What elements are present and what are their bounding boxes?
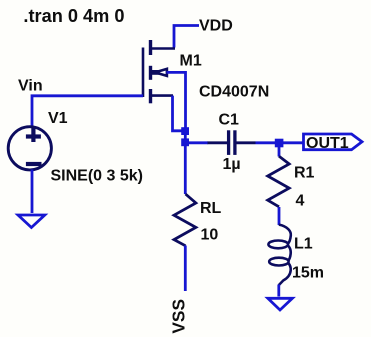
wire bulk down to node [167, 72, 186, 128]
ground (left) [18, 215, 45, 228]
resistor RL [174, 194, 196, 246]
wire node down to RL [184, 131, 187, 194]
svg-text:C1: C1 [219, 112, 240, 129]
plus sign [26, 134, 41, 138]
minus sign [26, 162, 42, 166]
wire C1 to port [256, 141, 305, 144]
gate line [142, 48, 145, 98]
junction node source/bulk [181, 127, 189, 135]
drain stub [151, 47, 176, 50]
svg-text:15m: 15m [292, 264, 324, 281]
svg-text:OUT1: OUT1 [306, 135, 349, 152]
C1 left lead [208, 141, 228, 144]
svg-text:.tran 0 4m 0: .tran 0 4m 0 [23, 6, 124, 26]
svg-text:R1: R1 [294, 165, 315, 182]
channel bar source [149, 89, 152, 103]
svg-text:V1: V1 [48, 110, 68, 127]
junction node R1 top [275, 139, 284, 148]
source stub [151, 94, 174, 97]
bulk arrow [151, 70, 159, 75]
wire L1 to ground [277, 285, 280, 297]
wire source down to node [173, 96, 184, 131]
wire R1 to L1 [278, 207, 281, 225]
resistor R1 [268, 156, 290, 207]
wire node to C1 left [185, 141, 208, 144]
svg-text:10: 10 [201, 226, 219, 243]
inductor L1 [268, 225, 290, 285]
wire Vin to gate [32, 96, 143, 128]
svg-text:Vin: Vin [18, 78, 43, 95]
wire RL to VSS [184, 246, 187, 292]
ground (right) [268, 298, 293, 310]
voltage source V1 [8, 127, 51, 170]
channel bar drain [149, 40, 152, 55]
port OUT1 [304, 134, 363, 150]
svg-text:RL: RL [200, 200, 222, 217]
wire V1 to ground [31, 170, 34, 214]
svg-text:SINE(0 3 5k): SINE(0 3 5k) [51, 168, 143, 185]
channel bar bulk [149, 66, 152, 80]
transistor M1 (nmos4 symbol) [143, 40, 175, 103]
junction node main [181, 138, 189, 146]
svg-text:M1: M1 [180, 53, 202, 70]
svg-text:VSS: VSS [169, 299, 189, 334]
svg-text:CD4007N: CD4007N [199, 84, 269, 101]
svg-text:4: 4 [296, 192, 305, 209]
svg-text:1µ: 1µ [223, 156, 241, 173]
capacitor C1 [229, 130, 235, 155]
wire node to R1 [278, 143, 281, 157]
svg-text:L1: L1 [294, 235, 313, 252]
wire C1 right to port [236, 141, 255, 144]
wire VDD to drain [174, 26, 199, 48]
svg-text:VDD: VDD [199, 18, 233, 35]
